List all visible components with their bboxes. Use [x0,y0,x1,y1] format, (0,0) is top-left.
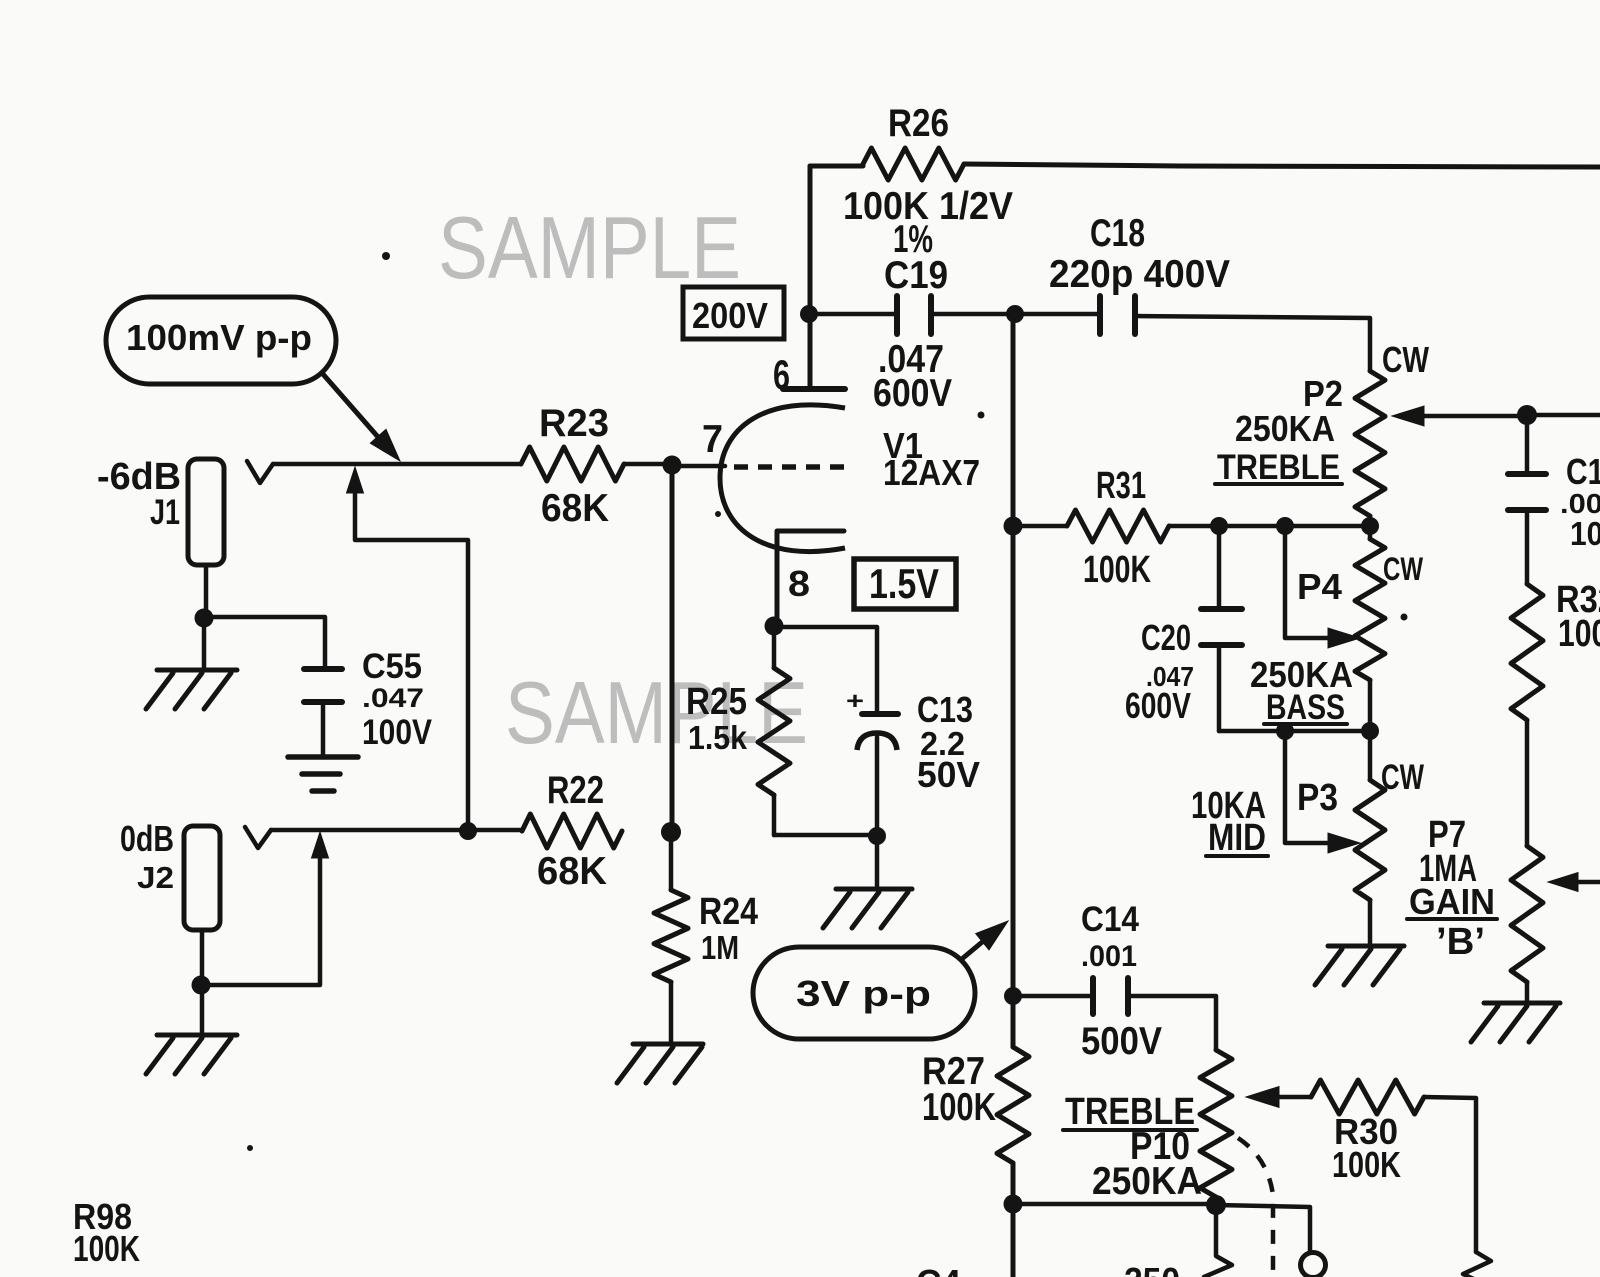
main bus vertical upper [1011,314,1016,1047]
wire node to C55 [204,617,325,669]
node B (bus top) [1006,305,1024,323]
wire node to switch terminal [1216,1205,1310,1252]
svg-text:C17: C17 [1566,451,1600,492]
speck [978,412,985,419]
svg-text:MID: MID [1208,816,1266,858]
switch terminal circle [1301,1253,1326,1277]
svg-text:7: 7 [702,418,723,461]
jack J2 tip contact [245,827,271,848]
svg-text:.047: .047 [362,683,424,713]
main bus vertical lower [1011,1163,1016,1277]
svg-text:TREBLE: TREBLE [1217,448,1340,487]
svg-text:68K: 68K [541,487,609,530]
svg-text:250: 250 [1124,1260,1180,1277]
capacitor C17 [1508,471,1546,477]
node bus C14 row [1004,987,1022,1005]
svg-text:600V: 600V [1125,685,1191,726]
tube V1 plate [783,386,845,392]
svg-text:100V: 100V [1570,516,1600,553]
wire left vertical 200V node to plate [808,166,813,388]
svg-text:J1: J1 [150,493,180,532]
node P4 wiper column top [1276,517,1294,535]
potentiometer P7 [1511,846,1543,982]
voltage label 200V box [683,287,784,339]
speck [382,252,390,260]
svg-text:.001: .001 [1560,488,1600,519]
wire J2 to R22 [468,828,522,833]
capacitor C14 [1090,978,1096,1014]
callout 100mV p-p [106,297,336,384]
tube V1 envelope [720,405,845,552]
svg-text:R26: R26 [888,102,949,145]
svg-text:R22: R22 [547,769,604,812]
svg-text:C13: C13 [917,689,973,730]
resistor R22 [522,814,622,848]
capacitor C20 [1217,526,1222,609]
svg-text:SAMPLE: SAMPLE [438,198,741,297]
wire J1 input to R23 [273,462,521,467]
wire R30 right lead down [1424,1097,1476,1252]
P2 wiper arrow [1392,406,1424,426]
node J2 switch-link junction [459,822,477,840]
wire wiper node to right edge [1527,413,1600,418]
resistor R26 [863,148,964,180]
svg-text:6: 6 [773,351,790,398]
tube V1 cathode [777,531,844,626]
wire P3 to ground [1368,900,1373,944]
svg-text:0dB: 0dB [120,818,174,859]
wire R32 to P7 [1525,720,1530,846]
svg-text:1M: 1M [701,930,739,967]
svg-text:’B’: ’B’ [1436,920,1485,962]
svg-text:R31: R31 [1096,464,1146,506]
node 200V plate node [800,305,818,323]
ground under P7 [1484,1001,1560,1006]
svg-text:1.5k: 1.5k [688,720,747,757]
svg-text:100K: 100K [1558,612,1600,654]
svg-text:3V p-p: 3V p-p [796,973,931,1014]
potentiometer P4 [1368,526,1373,539]
wire R25 bottom to C13 bottom [774,833,877,838]
svg-text:500V: 500V [1081,1020,1162,1063]
dashed gang link [1238,1138,1273,1277]
svg-text:C14: C14 [1081,900,1140,939]
potentiometer P2 [1355,371,1385,516]
svg-text:100K: 100K [1332,1144,1401,1185]
potentiometer P10 [1200,1050,1232,1197]
svg-text:R25: R25 [686,680,747,722]
svg-text:GAIN: GAIN [1409,881,1495,922]
node P10 bottom [1206,1195,1226,1215]
svg-text:100K: 100K [73,1228,140,1269]
ground under J2 [157,1033,237,1038]
jack J2 body [184,826,220,930]
wire bus to C14 [1013,994,1093,999]
wire R24 to ground [669,982,674,1042]
speck [1401,614,1408,621]
ground under R24 [633,1042,703,1047]
wire plate supply top row [810,166,863,176]
wire 200V node to C19 [809,312,897,317]
wire C17 to R32 [1525,510,1530,584]
wire node B to C18 [1015,312,1100,317]
svg-text:C20: C20 [1141,617,1191,658]
svg-text:8: 8 [788,563,810,604]
svg-text:68K: 68K [537,850,607,893]
resistor R31 [1067,510,1169,542]
jack J2 switch contact arrow [312,832,329,858]
wire J2 input [271,828,468,833]
node J1 sleeve [195,609,214,628]
svg-text:100V: 100V [362,713,433,752]
wire P7 to ground [1525,982,1530,1002]
node J2 sleeve [192,976,211,995]
jack J1 tip contact [247,461,273,483]
resistor R30 [1276,1095,1311,1100]
wire C19 to node B [931,312,1015,317]
wire R31 to tone nodes [1169,524,1370,529]
resistor R32 [1511,584,1543,720]
svg-text:R24: R24 [699,890,758,932]
svg-text:CW: CW [1381,758,1424,797]
arrow callout to bus [963,933,993,958]
svg-text:1.5V: 1.5V [869,560,939,607]
svg-text:50V: 50V [917,754,980,795]
svg-text:CW: CW [1382,339,1430,380]
wire R26 to right edge [964,164,1600,167]
resistor R23 [521,447,624,481]
svg-text:R23: R23 [539,402,609,445]
wire cathode node to C13 [774,627,877,712]
svg-text:220p 400V: 220p 400V [1049,253,1230,296]
svg-text:600V: 600V [873,372,952,415]
svg-text:P3: P3 [1297,776,1338,818]
wire grid column down to R22 node [670,465,675,832]
voltage label 1.5V box [854,559,956,609]
node C20 top [1210,517,1228,535]
node P2 bottom [1361,517,1379,535]
node cathode ground [868,827,886,845]
capacitor C55 [304,666,342,672]
wire J2 sleeve down [200,930,205,1032]
node grid (R23/R22 junction column top) [663,456,682,475]
node bus P10 bottom row [1004,1195,1023,1214]
resistor stub below R30 lead [1463,1252,1491,1277]
wire C20 bottom row [1219,729,1370,734]
wire wiper node down to C17 [1525,415,1530,472]
wire C18 to P2 CW corner [1135,316,1370,371]
svg-text:C18: C18 [1090,212,1145,255]
svg-text:100K: 100K [1083,548,1151,590]
wire C14 to P10 top [1128,996,1216,1050]
svg-text:BASS: BASS [1266,688,1345,727]
svg-text:-6dB: -6dB [97,455,181,497]
arrow callout to input wire [322,373,385,445]
svg-text:P4: P4 [1297,566,1342,607]
wire grid node into tube [672,464,725,469]
svg-text:100K: 100K [922,1086,996,1129]
potentiometer P3 [1368,731,1373,780]
P4 wiper arrow [1285,526,1330,638]
capacitor C19 [894,296,900,334]
speck [715,511,721,517]
node cathode [765,617,784,636]
svg-text:.001: .001 [1081,940,1137,973]
ground under C13 [875,836,880,888]
P10 wiper arrow (R30 left lead) [1246,1087,1279,1108]
ground under J1 [202,618,207,668]
wire R23 to grid node [624,462,672,467]
wire P10 bottom row [1013,1202,1216,1207]
jack J1 body [188,459,224,565]
svg-text:100mV p-p: 100mV p-p [126,317,312,358]
capacitor C18 [1097,296,1103,334]
node P3 wiper column top [1276,722,1294,740]
node P4 bottom [1361,722,1379,740]
P3 wiper arrow [1285,731,1330,843]
node R22 right (grid leak node) [661,822,681,842]
svg-text:200V: 200V [692,295,768,336]
svg-text:250KA: 250KA [1235,408,1335,449]
earth ground under C55 [288,754,358,760]
P7 wiper arrow [1548,873,1578,892]
svg-text:CW: CW [1383,551,1424,587]
wire J1 sleeve down [204,565,209,618]
svg-text:C55: C55 [362,647,422,686]
resistor R24 [669,832,674,890]
wire bus to R31 [1013,524,1067,529]
svg-text:J2: J2 [137,860,174,895]
svg-text:C4: C4 [916,1262,961,1277]
speck [247,1145,253,1151]
resistor R25 [772,626,777,668]
ground under P3 [1328,944,1404,949]
potentiometer P9 stub [1204,1205,1232,1277]
node P2 wiper / right column [1517,405,1537,425]
jack J1 switch contact arrow [347,467,364,493]
svg-text:12AX7: 12AX7 [883,452,980,493]
svg-text:C19: C19 [884,254,948,297]
tube V1 grid dashed [734,464,845,470]
resistor R27 [997,1047,1029,1163]
node bus R31 [1004,517,1023,536]
svg-text:250KA: 250KA [1092,1160,1202,1203]
callout 3V p-p [753,947,975,1039]
